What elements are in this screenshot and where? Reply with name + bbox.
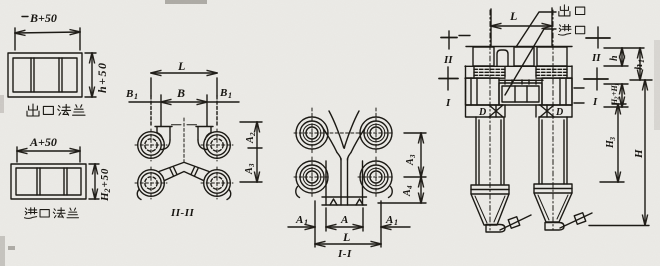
- svg-text:3: 3: [409, 154, 417, 159]
- svg-text:1: 1: [615, 83, 621, 86]
- svg-text:h: h: [633, 64, 645, 70]
- svg-text:I: I: [445, 97, 451, 109]
- svg-text:1: 1: [394, 218, 398, 227]
- svg-text:A: A: [402, 189, 413, 197]
- svg-text:3: 3: [248, 163, 256, 168]
- svg-text:A: A: [245, 136, 256, 144]
- svg-text:H: H: [99, 192, 111, 202]
- svg-text:D: D: [555, 107, 563, 118]
- svg-text:L: L: [509, 9, 517, 23]
- svg-text:h+50: h+50: [95, 61, 109, 93]
- svg-text:4: 4: [406, 185, 414, 190]
- svg-text:2: 2: [615, 97, 621, 101]
- svg-text:B: B: [219, 87, 227, 99]
- svg-text:B: B: [125, 88, 133, 100]
- svg-text:II: II: [443, 54, 453, 66]
- svg-text:L: L: [342, 230, 350, 244]
- svg-text:II-II: II-II: [170, 207, 195, 219]
- svg-text:A+50: A+50: [29, 135, 57, 149]
- svg-text:B+50: B+50: [29, 11, 57, 25]
- svg-text:B: B: [176, 86, 185, 100]
- svg-text:A: A: [244, 167, 255, 175]
- svg-text:A: A: [385, 214, 393, 226]
- svg-text:L: L: [177, 59, 185, 73]
- svg-text:D: D: [478, 107, 486, 118]
- svg-text:2: 2: [249, 132, 257, 137]
- svg-text:+50: +50: [99, 168, 111, 188]
- svg-text:1: 1: [134, 92, 138, 101]
- svg-text:1: 1: [228, 91, 232, 100]
- svg-text:1: 1: [304, 218, 308, 227]
- svg-text:A: A: [295, 214, 303, 226]
- svg-text:II: II: [591, 52, 601, 64]
- svg-text:I: I: [592, 96, 598, 108]
- svg-text:A: A: [340, 214, 348, 226]
- svg-text:I-I: I-I: [337, 248, 352, 260]
- svg-text:1: 1: [637, 59, 646, 63]
- svg-text:H: H: [633, 149, 645, 159]
- svg-text:3: 3: [609, 137, 617, 142]
- svg-text:h: h: [609, 55, 620, 61]
- svg-text:2: 2: [103, 189, 112, 194]
- svg-text:A: A: [405, 158, 416, 166]
